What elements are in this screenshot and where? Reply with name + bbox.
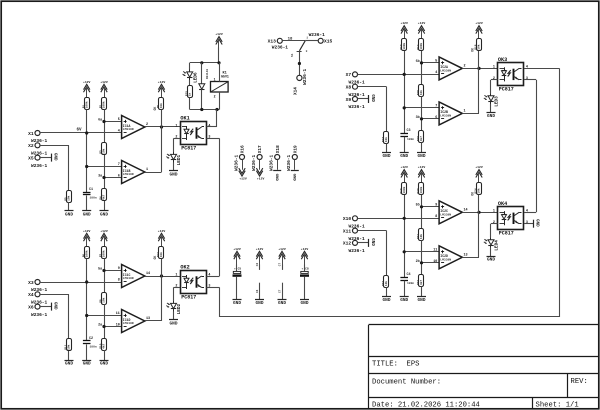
wire 4 main input net — [358, 218, 440, 220]
ground 1 input B — [65, 211, 74, 218]
svg-text:TITLE: EPS: TITLE: EPS — [372, 361, 419, 369]
capacitor C3 100n 3 — [400, 129, 414, 141]
wire 2 6a to +inA — [104, 270, 122, 272]
svg-text:100k: 100k — [102, 101, 106, 108]
connector X5 W236-1 1 gnd pin — [28, 155, 47, 169]
svg-text:14: 14 — [464, 209, 468, 213]
connector X13 W236-1 sense A — [268, 38, 285, 44]
junction 2 main/pullup — [85, 280, 88, 283]
svg-text:GND: GND — [100, 213, 108, 218]
svg-text:100k: 100k — [402, 186, 406, 193]
svg-text:6V: 6V — [77, 128, 83, 132]
resistor R2 1 — [100, 98, 107, 110]
junction 1 3a — [102, 176, 105, 179]
svg-text:+12V: +12V — [418, 21, 426, 25]
svg-text:10k: 10k — [159, 103, 163, 108]
svg-text:100k: 100k — [402, 42, 406, 49]
wire 3 opto pin2 to LED — [491, 80, 498, 94]
svg-text:GND: GND — [487, 258, 495, 263]
junction 4 out node — [477, 211, 480, 214]
svg-text:+12V: +12V — [418, 165, 426, 169]
ground 4 input B — [382, 297, 391, 303]
svg-text:2: 2 — [175, 136, 177, 140]
svg-text:10k: 10k — [477, 188, 481, 193]
svg-text:10k: 10k — [67, 195, 71, 200]
svg-text:GND: GND — [400, 154, 408, 159]
svg-text:8: 8 — [118, 279, 120, 283]
resistor R6 2 — [82, 247, 89, 259]
wire 2 R11 to gnd — [68, 351, 70, 360]
svg-text:GND: GND — [170, 321, 178, 326]
svg-text:OK: OK — [153, 256, 157, 260]
svg-text:1: 1 — [493, 210, 495, 214]
power +12V 4 pullup — [400, 165, 408, 183]
wire 2 outB joined — [145, 259, 162, 322]
wire 2 X6 to gnd — [40, 306, 51, 308]
junction diode top — [200, 61, 203, 64]
ground 3 input B — [382, 153, 391, 160]
LED LED4 4 — [484, 237, 500, 250]
junction 3 out node — [477, 67, 480, 70]
ground 1 connector — [52, 153, 57, 162]
wire 3 X9 to gnd — [358, 98, 369, 100]
optocoupler OK3 PC817 3 — [493, 57, 528, 93]
svg-text:100n: 100n — [90, 197, 97, 200]
svg-text:LM339N: LM339N — [440, 70, 451, 73]
svg-text:C2: C2 — [89, 337, 93, 341]
svg-text:7: 7 — [435, 104, 437, 108]
wire 4 opto pin2 to LED — [491, 224, 498, 238]
svg-text:C6: C6 — [256, 263, 259, 267]
svg-text:GND: GND — [233, 301, 241, 306]
svg-text:+12V: +12V — [158, 229, 166, 233]
svg-text:+12V: +12V — [278, 247, 286, 251]
svg-text:REV:: REV: — [571, 378, 588, 386]
resistor R25 relay branch — [185, 86, 192, 98]
svg-text:W236-1: W236-1 — [31, 163, 48, 169]
svg-text:6: 6 — [118, 175, 120, 179]
svg-text:LM339N: LM339N — [123, 173, 134, 176]
wire 3 divider vertical 6a — [421, 51, 423, 85]
junction 3 3a — [420, 117, 423, 120]
junction 4 inB+ — [403, 250, 406, 253]
svg-text:100n: 100n — [407, 282, 414, 285]
op-amp IC1A 1 comparator A — [118, 116, 148, 139]
optocoupler OK4 PC817 4 — [493, 201, 528, 237]
svg-text:2a: 2a — [98, 324, 102, 328]
wire 4 3a to -inB — [422, 262, 440, 264]
wire 4 cap to gnd — [404, 281, 406, 297]
svg-text:+12V: +12V — [83, 229, 91, 233]
wire 2 3a to -inB — [104, 326, 122, 328]
wire 3 outA to opto — [462, 68, 497, 70]
svg-text:GND: GND — [383, 154, 391, 159]
resistor R1 1 — [82, 98, 89, 110]
svg-text:GND: GND — [274, 174, 278, 182]
optocoupler OK1 PC817 1 — [175, 116, 210, 152]
connector X11 W236-1 4 input B — [343, 228, 365, 242]
power +12V 3 divider — [418, 21, 426, 39]
svg-text:100k: 100k — [84, 101, 88, 108]
connector X10 W236-1 4 input A — [343, 216, 365, 230]
wire 2 divider to gnd — [104, 350, 106, 360]
ground 4 LED — [487, 257, 496, 263]
svg-text:GND: GND — [65, 362, 73, 367]
svg-text:GND: GND — [278, 301, 286, 306]
svg-text:W236-1: W236-1 — [31, 312, 48, 318]
resistor R18 3 — [475, 39, 482, 51]
svg-text:X12: X12 — [343, 241, 352, 247]
connector X18 W236-1 — [269, 145, 281, 171]
svg-text:+12V: +12V — [475, 21, 483, 25]
wire OK3 pin4 stub — [524, 68, 541, 70]
svg-text:PC817: PC817 — [499, 231, 514, 237]
ground 1 divider — [100, 211, 109, 218]
resistor R15 3 — [417, 85, 423, 97]
wire 3 LED to gnd — [490, 104, 492, 112]
svg-text:9: 9 — [435, 203, 437, 207]
svg-text:6b: 6b — [416, 59, 420, 64]
junction 2 inB+ — [85, 314, 88, 317]
svg-text:GND: GND — [83, 213, 91, 218]
svg-text:10k: 10k — [67, 344, 71, 349]
svg-text:10k: 10k — [419, 234, 423, 239]
svg-text:C4: C4 — [407, 273, 411, 277]
wire 2 main input net — [40, 282, 122, 284]
capacitor C6 (unplaced) — [256, 263, 260, 300]
resistor R13 3 — [400, 39, 407, 51]
resistor R23 4 — [382, 276, 388, 288]
svg-text:C6: C6 — [256, 289, 259, 293]
svg-text:X6: X6 — [28, 304, 34, 310]
ground 3 divider — [417, 153, 426, 160]
wire 3 main input net — [358, 74, 440, 76]
svg-text:LED6: LED6 — [193, 72, 198, 83]
wire 4 outA to opto — [462, 212, 497, 214]
wire 2 LED to gnd — [173, 311, 175, 319]
svg-text:W236-1: W236-1 — [272, 44, 289, 50]
svg-text:7: 7 — [118, 163, 120, 167]
wire 4 X11 branch — [358, 231, 387, 276]
svg-text:1: 1 — [175, 273, 177, 277]
power +12V 2 feed — [158, 229, 166, 247]
svg-text:GND: GND — [100, 362, 108, 367]
wire 1 pullup/filter vertical — [86, 110, 88, 193]
svg-text:10k: 10k — [102, 148, 106, 153]
ground 1 LED — [169, 171, 178, 178]
wire 1 X5 to gnd — [40, 157, 51, 159]
junction 1 out node — [160, 125, 163, 128]
svg-text:X7: X7 — [346, 72, 352, 78]
wire 4 net to +inB — [404, 251, 439, 253]
svg-text:LM339N: LM339N — [123, 128, 134, 131]
svg-text:5a: 5a — [98, 267, 102, 271]
wire 2 net to +inB — [87, 315, 122, 317]
svg-text:X11: X11 — [343, 228, 352, 234]
resistor R5 1 — [65, 191, 72, 203]
wire 1 divider vertical 3a — [104, 155, 106, 189]
svg-text:5b: 5b — [416, 203, 420, 208]
ground cap C5 — [233, 300, 242, 307]
svg-text:2: 2 — [175, 285, 177, 289]
svg-text:Date: 21.02.2026 11:20:44: Date: 21.02.2026 11:20:44 — [372, 402, 480, 410]
junction 2 6a — [102, 269, 105, 272]
capacitor C4 100n 4 — [400, 273, 414, 285]
ground 3 LED — [487, 113, 496, 119]
wire LED6 branch top — [189, 63, 191, 70]
wire 4 R23 to gnd — [386, 287, 388, 296]
svg-text:1N4148: 1N4148 — [206, 69, 209, 80]
svg-text:100k: 100k — [102, 250, 106, 257]
svg-text:GND: GND — [170, 172, 178, 177]
ground X19 — [291, 171, 299, 182]
svg-text:+12V: +12V — [158, 80, 166, 84]
svg-text:6: 6 — [435, 116, 437, 120]
junction 2 3a — [102, 325, 105, 328]
svg-text:+12V: +12V — [301, 247, 309, 251]
svg-text:X3: X3 — [28, 280, 34, 286]
resistor R24 4 — [475, 183, 482, 195]
diode 1N4148 freewheeling — [199, 69, 209, 90]
svg-text:W236-1: W236-1 — [302, 68, 308, 85]
svg-text:GND: GND — [535, 219, 539, 227]
junction 1 main/pullup — [85, 131, 88, 134]
svg-text:+12V: +12V — [257, 177, 265, 181]
wire 1 6a to +inA — [104, 121, 122, 123]
wire 1 opto pin2 to LED — [174, 138, 181, 152]
wire 2 cap to gnd — [86, 344, 88, 360]
svg-text:X4: X4 — [28, 292, 34, 298]
connector X3 W236-1 2 input A — [28, 280, 47, 294]
optocoupler OK2 PC817 2 — [175, 265, 210, 301]
wire 3 cap to gnd — [404, 137, 406, 153]
svg-text:5: 5 — [118, 118, 120, 122]
wire 3 X8 branch — [358, 87, 387, 132]
junction X14 wire — [298, 62, 301, 65]
wire C8 top — [304, 265, 306, 272]
svg-text:1: 1 — [146, 168, 148, 172]
connector X19 W236-1 — [286, 145, 298, 171]
svg-text:6a: 6a — [98, 118, 102, 122]
svg-text:+ C5: + C5 — [234, 268, 241, 271]
op-amp IC1C 2 comparator A — [118, 265, 150, 288]
svg-text:10: 10 — [433, 260, 437, 264]
resistor R17 3 — [382, 132, 388, 144]
resistor R22 4 — [417, 275, 423, 287]
svg-text:3: 3 — [208, 285, 210, 289]
wire 1 main input net — [40, 132, 122, 134]
svg-text:OK4: OK4 — [498, 201, 507, 207]
svg-text:W236-1: W236-1 — [309, 32, 326, 38]
capacitor C5 polarized — [233, 268, 242, 277]
ground 1 filter — [82, 211, 91, 218]
wire 2 divider vertical 6a — [104, 259, 106, 293]
svg-text:1: 1 — [493, 66, 495, 70]
svg-text:X10: X10 — [343, 216, 352, 222]
svg-text:X9: X9 — [346, 97, 352, 103]
svg-text:3b: 3b — [416, 115, 420, 120]
svg-text:GND: GND — [370, 238, 374, 246]
svg-text:OK1: OK1 — [180, 116, 189, 122]
op-amp IC2D 4 comparator B — [433, 246, 467, 269]
ground 2 filter — [82, 361, 91, 367]
svg-text:X5: X5 — [28, 155, 34, 161]
power +12V X16 — [239, 168, 247, 181]
connector X6 W236-1 2 gnd pin — [28, 304, 47, 318]
svg-text:11: 11 — [433, 248, 437, 252]
svg-text:13: 13 — [464, 254, 468, 258]
svg-text:2: 2 — [214, 94, 216, 98]
ground OK4 output — [534, 219, 539, 228]
wire OK1 pin3 to OK2 pin4 — [207, 138, 220, 276]
resistor R7 2 — [100, 247, 107, 259]
capacitor C8 polarized — [300, 268, 309, 277]
op-amp IC2A 3 comparator A — [435, 57, 465, 80]
resistor R21 4 — [417, 229, 423, 241]
svg-text:OK2: OK2 — [180, 265, 189, 271]
power +12V 2 divider — [100, 229, 108, 247]
svg-text:OK3: OK3 — [498, 57, 507, 63]
junction relay top — [217, 61, 220, 64]
svg-text:+12V: +12V — [83, 80, 91, 84]
wire +12V to relay rail — [218, 48, 220, 63]
svg-text:10k: 10k — [159, 252, 163, 257]
wire 3 6a to +inA — [422, 62, 440, 64]
svg-text:8: 8 — [435, 215, 437, 219]
resistor R10 2 — [100, 339, 107, 351]
svg-text:OK: OK — [153, 107, 157, 111]
svg-text:2b: 2b — [416, 259, 420, 264]
wire 1 divider vertical 6a — [104, 110, 106, 144]
wire 3 3a to -inB — [422, 118, 440, 120]
wire 2 opto pin2 to LED — [174, 287, 181, 301]
svg-text:LM339N: LM339N — [440, 115, 451, 118]
svg-text:+12V: +12V — [100, 80, 108, 84]
power +12V cap C8 — [301, 247, 309, 265]
resistor R14 3 — [417, 39, 423, 51]
svg-text:X15: X15 — [324, 39, 333, 45]
svg-text:+12V: +12V — [256, 247, 264, 251]
power +12V 2 pullup — [83, 229, 91, 247]
svg-text:10k: 10k — [102, 297, 106, 302]
wire diode to bottom rail — [201, 89, 203, 109]
svg-text:+12V: +12V — [100, 229, 108, 233]
connector X14 W236-1 — [293, 68, 308, 95]
svg-text:LED2: LED2 — [177, 303, 182, 314]
svg-text:C1: C1 — [89, 188, 93, 192]
svg-text:100k: 100k — [84, 250, 88, 257]
svg-text:W236-1: W236-1 — [349, 104, 366, 110]
wire 1 divider to gnd — [104, 201, 106, 211]
svg-text:4k7: 4k7 — [419, 136, 423, 141]
ground cap C6 — [255, 300, 264, 307]
svg-text:10k: 10k — [384, 281, 388, 286]
svg-text:1: 1 — [175, 124, 177, 128]
svg-text:X14: X14 — [293, 87, 298, 95]
power +12V 3 pullup — [400, 21, 408, 39]
svg-text:GND: GND — [370, 94, 374, 102]
resistor R8 2 — [100, 293, 107, 305]
wire switch to X14 — [299, 51, 301, 75]
connector X16 W236-1 — [233, 145, 245, 171]
wire 4 6a to +inA — [422, 206, 440, 208]
svg-text:9: 9 — [118, 267, 120, 271]
svg-text:100k: 100k — [419, 42, 423, 49]
svg-text:+12V: +12V — [400, 21, 408, 25]
junction 2 out node — [160, 274, 163, 277]
svg-text:10k: 10k — [384, 137, 388, 142]
svg-text:GND: GND — [301, 301, 309, 306]
connector X4 W236-1 2 input B — [28, 292, 47, 306]
wire 4 pullup/filter vertical — [404, 195, 406, 277]
wire X13 to switch — [282, 40, 305, 42]
wire diode branch top — [201, 63, 203, 84]
wire C8 bottom — [304, 277, 306, 300]
svg-text:10: 10 — [116, 324, 120, 328]
svg-text:4: 4 — [435, 71, 437, 75]
power +12V 3 feed — [475, 21, 483, 39]
power +12V 1 divider — [100, 80, 108, 98]
svg-text:OK: OK — [470, 48, 474, 52]
wire C6 upper stub — [259, 265, 261, 270]
connector X9 W236-1 3 gnd pin — [346, 97, 365, 111]
svg-text:+12V: +12V — [233, 247, 241, 251]
svg-text:GND: GND — [52, 153, 56, 161]
capacitor C2 100n 2 — [83, 337, 97, 349]
power +12V 4 feed — [475, 165, 483, 183]
svg-text:+12V: +12V — [215, 32, 223, 36]
resistor R19 4 — [400, 183, 407, 195]
op-amp IC1B 1 comparator B — [118, 161, 148, 184]
connector X7 W236-1 3 input A — [346, 72, 365, 86]
capacitor C7 (unplaced) — [278, 263, 282, 300]
svg-text:GND: GND — [292, 174, 296, 182]
svg-text:X17: X17 — [258, 145, 263, 153]
wire 4 LED to gnd — [490, 248, 492, 256]
junction 4 3a — [420, 261, 423, 264]
power +12V relay — [215, 32, 223, 50]
op-amp IC1D 2 comparator B — [116, 310, 150, 333]
wire 4 divider vertical 6a — [421, 195, 423, 229]
wire 1 cap to gnd — [86, 195, 88, 211]
ground X18 — [273, 171, 281, 182]
svg-text:100n: 100n — [407, 138, 414, 141]
svg-text:C7: C7 — [278, 263, 281, 267]
svg-text:PC817: PC817 — [499, 87, 514, 93]
wire 1 net to +inB — [87, 166, 122, 168]
wire 1 3a to -inB — [104, 177, 122, 179]
ground 4 filter — [400, 297, 409, 303]
svg-text:X1: X1 — [28, 131, 34, 137]
wire OK3 pin3 to OK4 pin4 — [524, 80, 537, 213]
svg-text:OK: OK — [470, 192, 474, 196]
junction 4 main/pullup — [403, 217, 406, 220]
power +12V cap C6 — [256, 247, 264, 265]
LED LED2 2 — [166, 301, 182, 314]
relay K1 G5V1 — [211, 72, 229, 92]
resistor R11 2 — [65, 339, 72, 351]
wire C5 top — [236, 265, 238, 272]
svg-text:GND: GND — [418, 298, 426, 303]
svg-text:X13: X13 — [268, 39, 277, 45]
svg-text:GND: GND — [400, 298, 408, 303]
wire 2 outA to opto — [145, 276, 180, 278]
svg-text:100n: 100n — [90, 346, 97, 349]
svg-text:X2: X2 — [28, 143, 34, 149]
wire R25 to bottom rail — [189, 97, 191, 109]
LED LED1 1 — [166, 152, 182, 165]
connector X15 W236-1 — [309, 32, 333, 45]
